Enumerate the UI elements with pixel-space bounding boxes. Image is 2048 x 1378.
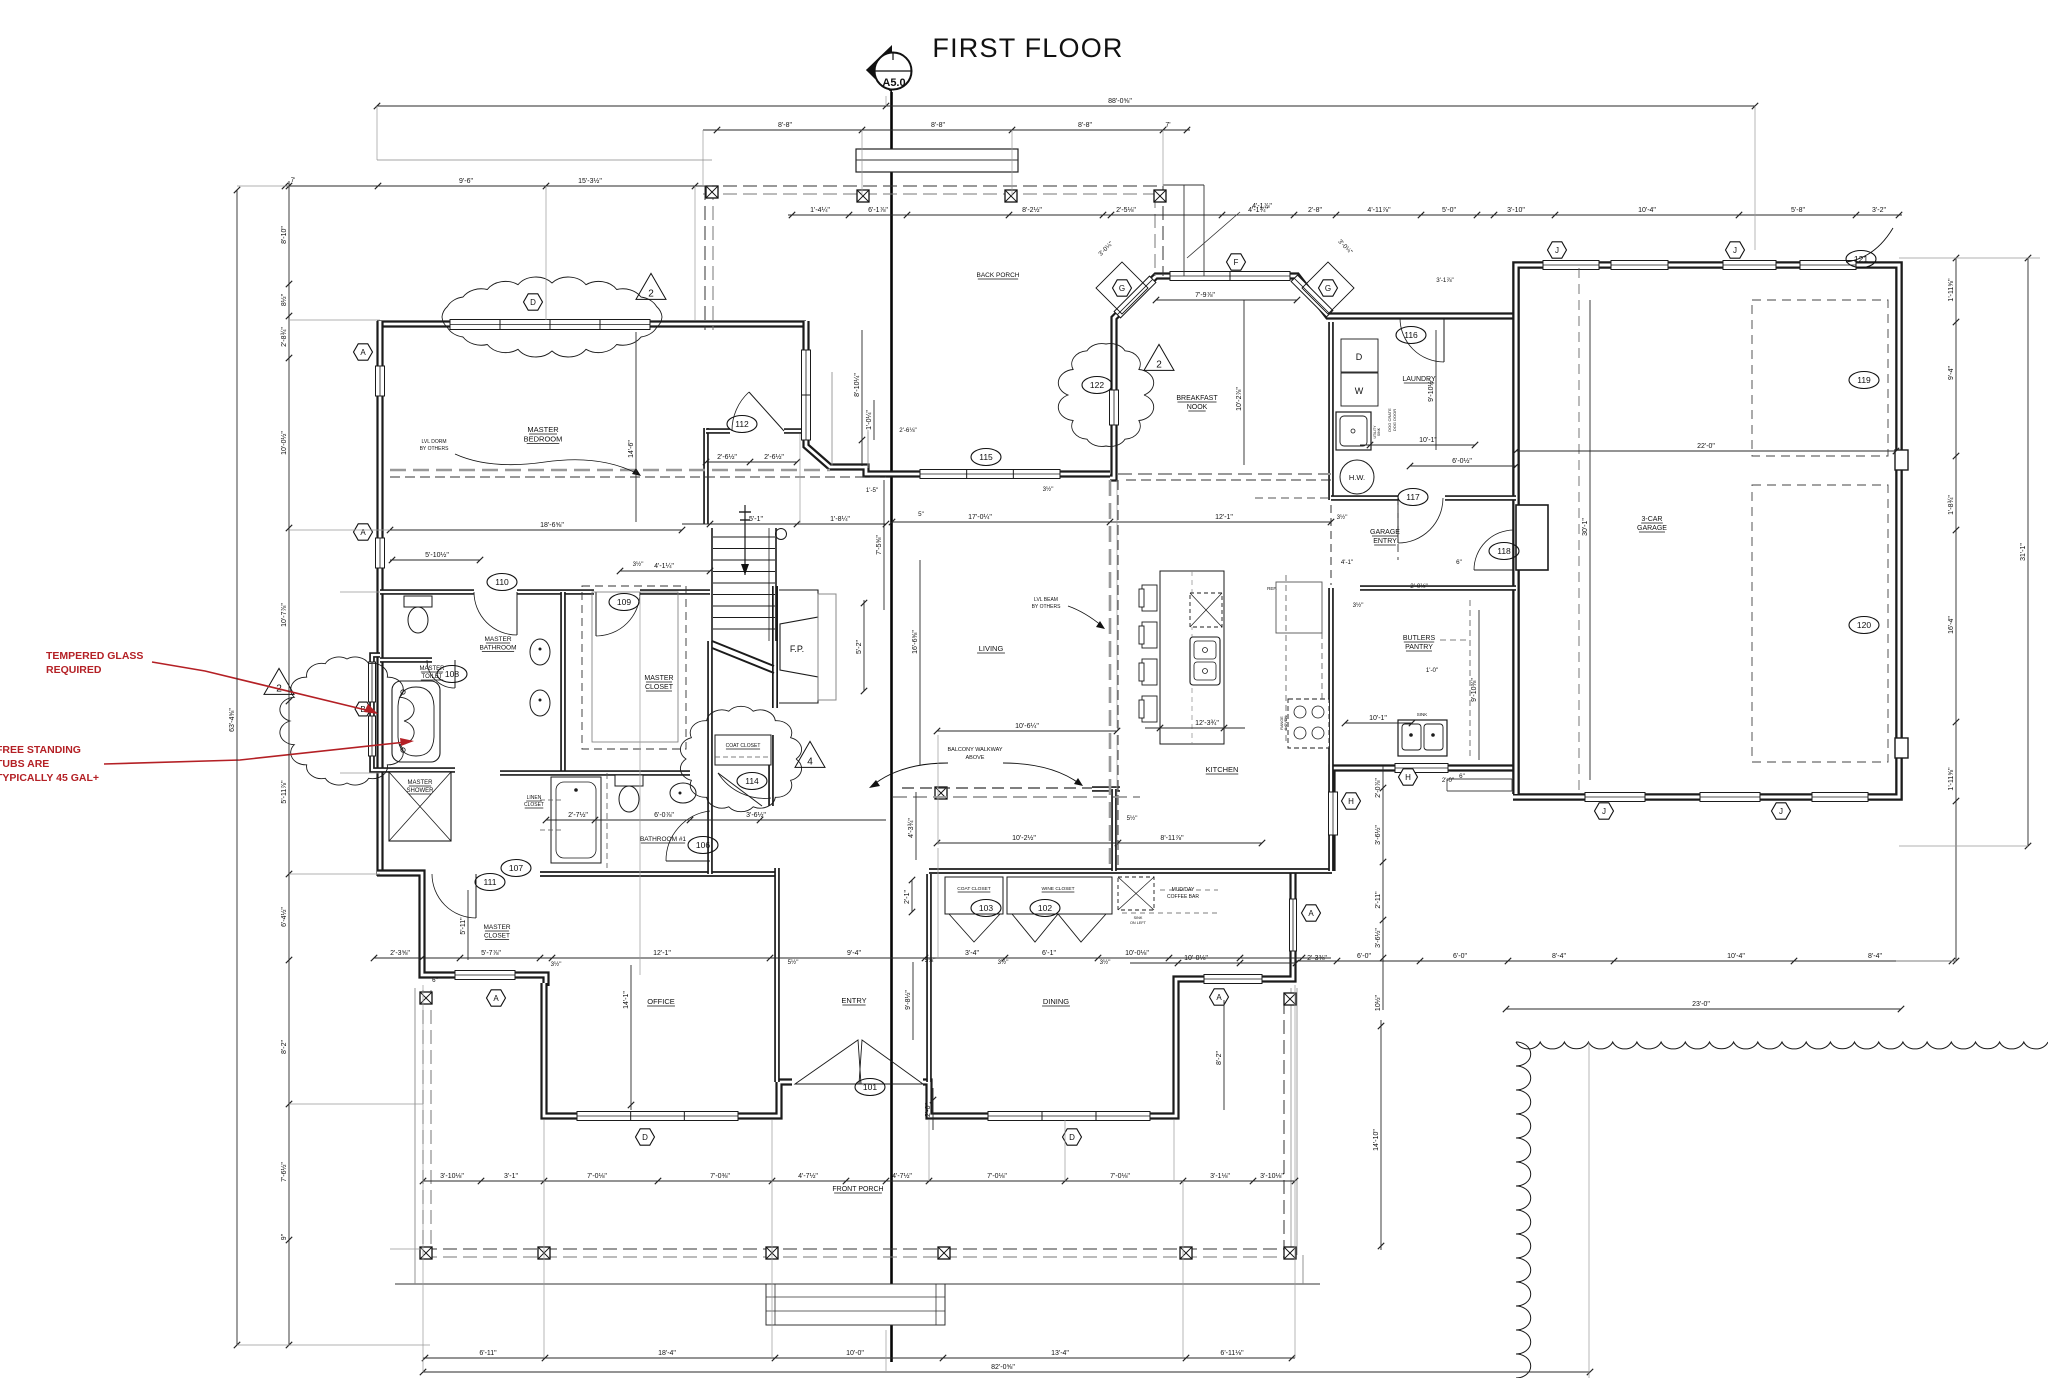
svg-text:2'-6½": 2'-6½" (764, 453, 784, 461)
room label KITCHEN (1206, 765, 1239, 774)
svg-text:5'-10½": 5'-10½" (425, 551, 449, 559)
room label MASTER SHOWER (407, 780, 435, 794)
window garage top 1 (1543, 261, 1599, 270)
interior wall pantry top (1360, 585, 1516, 591)
dim col entry14 (1373, 1020, 1384, 1250)
svg-text:8'-4": 8'-4" (1552, 953, 1566, 960)
marker A3 (487, 990, 506, 1006)
svg-text:9'-10⅜": 9'-10⅜" (1471, 678, 1478, 702)
dim col 2-0 (925, 1088, 936, 1130)
svg-text:MASTER: MASTER (484, 636, 511, 643)
dim col left 63ft (229, 187, 240, 1348)
room label BREAKFAST NOOK (1176, 395, 1218, 411)
door/window tag 111 (475, 874, 505, 891)
pantry sink (1398, 712, 1447, 756)
svg-text:7'-0⅛": 7'-0⅛" (587, 1173, 607, 1180)
dim col right 31 (2020, 255, 2031, 849)
door/window tag 103 (971, 900, 1001, 917)
window garage top 3 (1723, 261, 1776, 270)
small dim callouts (291, 177, 1465, 984)
room label MASTER CLOSET walkin (644, 675, 673, 691)
vanity sink bath1 (670, 783, 696, 803)
svg-text:10'-0⅛": 10'-0⅛" (1125, 950, 1149, 957)
exterior wall entry front (923, 871, 1293, 1116)
svg-text:8½": 8½" (280, 293, 288, 306)
door/window tag 109 (609, 594, 639, 611)
front porch post 5 (938, 1247, 950, 1259)
kitchen counter dashed (1285, 575, 1287, 745)
svg-text:10'-0½": 10'-0½" (280, 431, 288, 455)
door/window tag 116 (1396, 327, 1426, 344)
window garage bottom 2 (1700, 793, 1760, 802)
window dining front (988, 1112, 1150, 1121)
svg-text:10'-0": 10'-0" (846, 1350, 864, 1357)
svg-text:10'-4": 10'-4" (1638, 207, 1656, 214)
svg-text:D: D (1069, 1133, 1075, 1142)
svg-text:2'-11": 2'-11" (1375, 891, 1382, 909)
window D master bedroom (450, 320, 650, 330)
dim row front 1358 (422, 1350, 1295, 1361)
svg-text:BREAKFAST: BREAKFAST (1176, 395, 1218, 402)
dim row 10-2 8-11 (934, 834, 1265, 846)
master closet dashed (582, 586, 686, 749)
dim row bath1 (543, 811, 886, 823)
door 116 laundry (1400, 318, 1444, 362)
back porch post 4 (1154, 190, 1166, 202)
svg-text:2'-8": 2'-8" (1308, 207, 1322, 214)
svg-text:3½": 3½" (1337, 514, 1348, 521)
marker J4 (1772, 803, 1791, 819)
svg-text:3½": 3½" (1353, 602, 1364, 609)
svg-text:8'-11⅞": 8'-11⅞" (1160, 835, 1184, 842)
back porch post 2 (857, 190, 869, 202)
water heater H.W. (1340, 460, 1374, 494)
svg-text:H: H (1348, 797, 1354, 806)
svg-text:110: 110 (495, 577, 509, 587)
door/window tag 119 (1849, 372, 1879, 389)
svg-text:1'-8¼": 1'-8¼" (830, 516, 850, 523)
dim row 17-0 12-1 (889, 514, 1334, 525)
svg-text:FREE STANDING: FREE STANDING (0, 744, 81, 756)
dim col 9-10P (1471, 610, 1479, 760)
interior wall bedroom-bath separator b (517, 589, 594, 595)
svg-text:10'-6¼": 10'-6¼" (1015, 723, 1039, 730)
svg-text:1'-0¼": 1'-0¼" (866, 410, 873, 430)
dim col fp (856, 600, 867, 694)
dim row kitchen 10-0 (1130, 955, 1327, 966)
marker A1 (354, 344, 373, 360)
svg-text:9'-10½": 9'-10½" (1427, 378, 1435, 402)
interior wall bath vanity wall (560, 592, 566, 773)
marker A5 (1302, 905, 1321, 921)
svg-text:4'-11⅞": 4'-11⅞" (1367, 207, 1391, 214)
svg-text:1'-11⅝": 1'-11⅝" (1948, 278, 1955, 302)
svg-text:REF.: REF. (1267, 586, 1277, 591)
svg-text:REQUIRED: REQUIRED (46, 664, 102, 676)
room label FRONT PORCH (832, 1186, 883, 1193)
svg-text:8'-8": 8'-8" (778, 122, 792, 129)
dim row 5-10 (389, 551, 483, 563)
svg-text:FRONT PORCH: FRONT PORCH (832, 1186, 883, 1193)
svg-text:TYPICALLY 45 GAL+: TYPICALLY 45 GAL+ (0, 772, 99, 784)
svg-text:A: A (1216, 993, 1222, 1002)
room label MASTER CLOSET bay (483, 924, 510, 940)
exterior wall master bedroom top (377, 320, 806, 327)
svg-text:106: 106 (696, 840, 710, 850)
mud coffee bar cabinet (1118, 877, 1154, 910)
svg-text:LIVING: LIVING (979, 644, 1004, 653)
door/window tag 118 (1489, 543, 1519, 560)
door/window tag 110 (487, 574, 517, 591)
svg-text:DINING: DINING (1043, 997, 1069, 1006)
door 106 bathroom1 (666, 811, 710, 861)
svg-text:107: 107 (509, 863, 523, 873)
garage entry bump (1516, 505, 1548, 570)
interior wall bath-bath1 separator (500, 770, 563, 776)
coat closet box (945, 877, 1003, 914)
marker D1 (524, 294, 543, 310)
svg-text:2'-0½": 2'-0½" (1410, 583, 1427, 590)
svg-text:7': 7' (291, 177, 296, 184)
svg-text:SINK: SINK (1417, 712, 1428, 717)
svg-text:16'-4": 16'-4" (1948, 616, 1955, 634)
svg-text:J: J (1555, 246, 1559, 255)
svg-text:120: 120 (1857, 620, 1871, 630)
triangle 2 breakfast (1144, 344, 1174, 370)
svg-text:F: F (1234, 258, 1239, 267)
svg-text:COAT CLOSET: COAT CLOSET (726, 743, 761, 749)
svg-text:119: 119 (1857, 375, 1871, 385)
toilet master (404, 596, 432, 633)
window left wall upper (376, 366, 385, 396)
window mud east (1329, 792, 1338, 835)
svg-text:2'-5⅛": 2'-5⅛" (1116, 207, 1136, 214)
svg-text:2'-3⅝": 2'-3⅝" (390, 950, 410, 957)
dim row pantry 10-1 (1342, 715, 1415, 726)
big revision cloud bottom right (1516, 1042, 2048, 1378)
front porch post 3 (538, 1247, 550, 1259)
dim row bottom 82 (420, 1364, 1593, 1375)
svg-text:BATHROOM: BATHROOM (479, 645, 516, 652)
door/window tag 117 (1398, 489, 1428, 506)
svg-text:6'-0½": 6'-0½" (1452, 457, 1472, 465)
triangle 2 tub (264, 668, 294, 694)
svg-text:COAT CLOSET: COAT CLOSET (957, 886, 990, 892)
mud counter dashed (1122, 912, 1218, 914)
room label COAT CLOSET hall (726, 743, 761, 749)
svg-text:ABOVE: ABOVE (966, 755, 985, 761)
marker A4 (1210, 989, 1229, 1005)
window bay east (802, 350, 811, 440)
back porch beam (856, 149, 1018, 172)
svg-text:3'-2": 3'-2" (1872, 207, 1886, 214)
svg-text:BUTLERS: BUTLERS (1403, 635, 1436, 642)
interior wall office top (540, 871, 779, 877)
svg-text:TUBS ARE: TUBS ARE (0, 758, 49, 770)
interior wall entry east (926, 874, 932, 1082)
room label OFFICE (647, 997, 675, 1006)
door/window tag 115 (971, 449, 1001, 466)
svg-text:3'-1": 3'-1" (504, 1173, 518, 1180)
breakfast kitchen dash (1118, 473, 1331, 475)
svg-text:MASTER: MASTER (419, 666, 445, 672)
svg-text:J: J (1733, 246, 1737, 255)
svg-text:10'-2⅞": 10'-2⅞" (1236, 387, 1243, 411)
hall coat closet box (715, 735, 771, 765)
dim col mud (1374, 766, 1386, 1011)
svg-text:14'-6": 14'-6" (628, 440, 635, 458)
room label DINING (1042, 997, 1070, 1006)
svg-text:3'-1⅞": 3'-1⅞" (1436, 277, 1453, 284)
svg-text:G: G (1325, 284, 1331, 293)
svg-text:NOOK: NOOK (1187, 404, 1208, 411)
dim col 14-6 (628, 332, 636, 522)
room label MASTER TOILET (419, 666, 445, 680)
marker G2 (1302, 262, 1354, 314)
svg-text:30'-1": 30'-1" (1582, 518, 1589, 536)
svg-text:2'-8¾": 2'-8¾" (281, 327, 288, 347)
staircase (712, 505, 787, 673)
laundry washer (1341, 373, 1378, 406)
door 112 master bedroom (732, 392, 784, 431)
svg-text:2'-6⅛": 2'-6⅛" (899, 427, 916, 434)
front porch post 2 (420, 1247, 432, 1259)
svg-text:6'-11": 6'-11" (479, 1350, 497, 1357)
window 115 living (920, 470, 1060, 479)
section marker A5.0 (866, 45, 912, 93)
kitchen island (1160, 571, 1224, 744)
room label GARAGE ENTRY (1370, 529, 1400, 545)
svg-text:8'-10¼": 8'-10¼" (854, 373, 861, 397)
svg-text:3-CAR: 3-CAR (1641, 516, 1662, 523)
window garage bottom 3 (1812, 793, 1868, 802)
refrigerator (1276, 582, 1322, 633)
svg-text:5'-2": 5'-2" (856, 640, 863, 654)
svg-text:12'-1": 12'-1" (653, 950, 671, 957)
fireplace F.P. (779, 590, 836, 703)
door 114 coat closet (718, 773, 771, 806)
rear stoop steps (1447, 778, 1512, 780)
svg-text:6'-11⅛": 6'-11⅛" (1220, 1350, 1244, 1357)
svg-text:5'-1": 5'-1" (749, 516, 763, 523)
svg-text:MASTER: MASTER (483, 924, 510, 931)
svg-text:14'-10": 14'-10" (1373, 1129, 1380, 1151)
window mud south (1395, 764, 1448, 773)
window east front (1204, 975, 1262, 984)
interior wall door112 wall (703, 428, 709, 524)
svg-text:6": 6" (1456, 559, 1462, 566)
svg-text:4'-7½": 4'-7½" (892, 1172, 912, 1180)
marker H2 (1399, 769, 1418, 785)
svg-text:102: 102 (1038, 903, 1052, 913)
room label COAT CLOSET dining (957, 886, 990, 892)
svg-text:3½": 3½" (1100, 959, 1111, 966)
svg-text:3½": 3½" (1043, 486, 1054, 493)
svg-text:13'-4": 13'-4" (1051, 1350, 1069, 1357)
cloud breakfast 122 (1058, 344, 1153, 447)
svg-text:J: J (1602, 807, 1606, 816)
room label WINE CLOSET (1041, 886, 1074, 892)
svg-text:10'-4": 10'-4" (1727, 953, 1745, 960)
svg-text:18'-4": 18'-4" (658, 1350, 676, 1357)
svg-text:GARAGE: GARAGE (1370, 529, 1400, 536)
interior wall laundry south (1331, 495, 1398, 501)
dim col 5-11c (460, 890, 468, 960)
svg-text:8'-10": 8'-10" (281, 226, 288, 244)
svg-text:4'-7½": 4'-7½" (798, 1172, 818, 1180)
dim row laundry 10-1 (1360, 437, 1478, 448)
window tub bay 1 (369, 662, 376, 702)
svg-text:31'-1": 31'-1" (2020, 543, 2027, 561)
svg-text:101: 101 (863, 1082, 877, 1092)
dim col 7-5 (876, 480, 884, 610)
marker J1 (1548, 242, 1567, 258)
svg-text:63'-4⅝": 63'-4⅝" (229, 708, 236, 732)
svg-text:ENTRY: ENTRY (841, 996, 866, 1005)
svg-text:10'-2½": 10'-2½" (1012, 834, 1036, 842)
room label 3-CAR GARAGE (1637, 516, 1667, 532)
dim row 5-1 (682, 516, 889, 527)
lvl beam bedroom (390, 469, 830, 472)
door 109 hall (596, 592, 640, 636)
leader lvl beam (1068, 606, 1102, 626)
dim row front 1181 (420, 1172, 1298, 1184)
svg-text:4'-1¼": 4'-1¼" (654, 563, 674, 570)
svg-text:8'-2": 8'-2" (281, 1040, 288, 1054)
svg-text:5'-11": 5'-11" (460, 917, 467, 935)
svg-text:117: 117 (1406, 492, 1420, 502)
svg-text:7'-9⅞": 7'-9⅞" (1195, 292, 1215, 299)
dim row kitchen 12-3 (1145, 720, 1245, 731)
interior wall tub bay (372, 655, 380, 770)
dim col left main (280, 181, 292, 1348)
svg-text:8'-4": 8'-4" (1868, 953, 1882, 960)
svg-text:2'-0": 2'-0" (1442, 777, 1454, 784)
dim row garage bottom 1 (1296, 953, 1956, 964)
interior wall door112 horiz b (784, 428, 803, 434)
marker B (355, 702, 371, 716)
room label BATHROOM #1 (640, 836, 686, 843)
interior wall master toilet south (380, 657, 432, 663)
svg-text:MASTER: MASTER (644, 675, 673, 682)
svg-text:ON LEFT: ON LEFT (1130, 921, 1147, 925)
door/window tag 108 (437, 666, 467, 683)
svg-text:F.P.: F.P. (790, 644, 804, 654)
interior wall closet row top (929, 868, 1332, 874)
svg-text:9": 9" (281, 1233, 288, 1240)
svg-text:D: D (1356, 352, 1363, 362)
svg-text:KITCHEN: KITCHEN (1206, 765, 1239, 774)
svg-text:4'-1": 4'-1" (1341, 559, 1353, 566)
svg-text:LVL DORM: LVL DORM (421, 439, 446, 445)
garage door dashed 1 (1752, 300, 1888, 456)
door/window tag 112 (727, 416, 757, 433)
dim row garage 22 (1513, 443, 1899, 454)
svg-text:7'-0⅜": 7'-0⅜" (710, 1173, 730, 1180)
island sink (1190, 637, 1220, 685)
dim row mid 958 (371, 950, 1331, 961)
marker F (1227, 254, 1246, 270)
front porch post 4 (766, 1247, 778, 1259)
red leader tempered glass (152, 662, 370, 711)
dim row 10-6 (934, 723, 1120, 734)
svg-text:7'-5⅝": 7'-5⅝" (876, 535, 883, 555)
door/window tag 107 (501, 860, 531, 877)
front porch post 6 (1180, 1247, 1192, 1259)
svg-text:6'-0": 6'-0" (1357, 953, 1371, 960)
svg-text:2: 2 (1156, 359, 1162, 370)
svg-text:H: H (1405, 773, 1411, 782)
svg-text:5⅛": 5⅛" (925, 957, 936, 964)
garage door dashed 2 (1752, 485, 1888, 762)
garage entry dashes (1330, 505, 1332, 585)
leader 121 arc (1846, 228, 1893, 262)
svg-text:5'-7⅞": 5'-7⅞" (481, 950, 501, 957)
svg-text:FIRST FLOOR: FIRST FLOOR (932, 33, 1123, 63)
svg-text:A5.0: A5.0 (882, 77, 905, 89)
svg-text:1'-0": 1'-0" (1426, 667, 1438, 674)
svg-text:8'-8": 8'-8" (931, 122, 945, 129)
garage pilaster right 1 (1895, 450, 1908, 470)
svg-text:2'-3⅜": 2'-3⅜" (1307, 955, 1327, 962)
svg-text:10½": 10½" (1374, 994, 1382, 1011)
svg-text:88'-0⅝": 88'-0⅝" (1108, 98, 1132, 105)
svg-text:3'-1⅛": 3'-1⅛" (1210, 1173, 1230, 1180)
svg-text:12'-1": 12'-1" (1215, 514, 1233, 521)
freestanding tub (392, 681, 440, 762)
red leader tubs (104, 742, 406, 764)
dim col 16-6 (912, 560, 920, 765)
dim row garage bottom 2 (1503, 1001, 1904, 1012)
dim col 2-1 (904, 877, 915, 915)
svg-text:A: A (493, 994, 499, 1003)
window SE corner (1290, 899, 1297, 951)
marker J2 (1726, 242, 1745, 258)
window breakfast diag right (1291, 275, 1333, 317)
room label BACK PORCH (977, 272, 1020, 279)
dim col 8-10q (854, 330, 865, 466)
svg-text:W: W (1355, 386, 1364, 396)
dim row bay 7-9 (1153, 292, 1300, 303)
lvl beam living (1109, 480, 1112, 867)
svg-text:114: 114 (745, 776, 759, 786)
bath1 tub (551, 777, 601, 863)
svg-text:BALCONY WALKWAY: BALCONY WALKWAY (947, 747, 1002, 753)
svg-text:2'-7½": 2'-7½" (568, 811, 588, 819)
svg-text:LINEN: LINEN (527, 795, 542, 801)
door/window tag 114 (737, 773, 767, 790)
dim row bedroom doors (703, 453, 800, 465)
svg-text:6'-4½": 6'-4½" (280, 907, 288, 927)
door/window tag 106 (688, 837, 718, 854)
svg-text:7': 7' (1165, 122, 1170, 129)
svg-text:BATHROOM #1: BATHROOM #1 (640, 836, 686, 843)
dim col 30-1 (1582, 300, 1590, 780)
dim col 14-1o (623, 965, 634, 1110)
marker A2 (354, 524, 373, 540)
dim row back porch 8-8 (703, 122, 1190, 133)
svg-text:3'-10⅛": 3'-10⅛" (440, 1173, 464, 1180)
dim col 10-2e (1236, 300, 1244, 465)
svg-text:10'-1": 10'-1" (1419, 437, 1437, 444)
svg-text:109: 109 (617, 597, 631, 607)
wine closet box (1007, 877, 1112, 914)
interior wall bedroom-hall separator c (640, 589, 710, 595)
svg-text:DOG DOOR: DOG DOOR (1392, 409, 1397, 431)
svg-text:15'-3½": 15'-3½" (578, 177, 602, 185)
svg-text:1'-11⅝": 1'-11⅝" (1948, 767, 1955, 791)
svg-text:3'-6½": 3'-6½" (746, 811, 766, 819)
